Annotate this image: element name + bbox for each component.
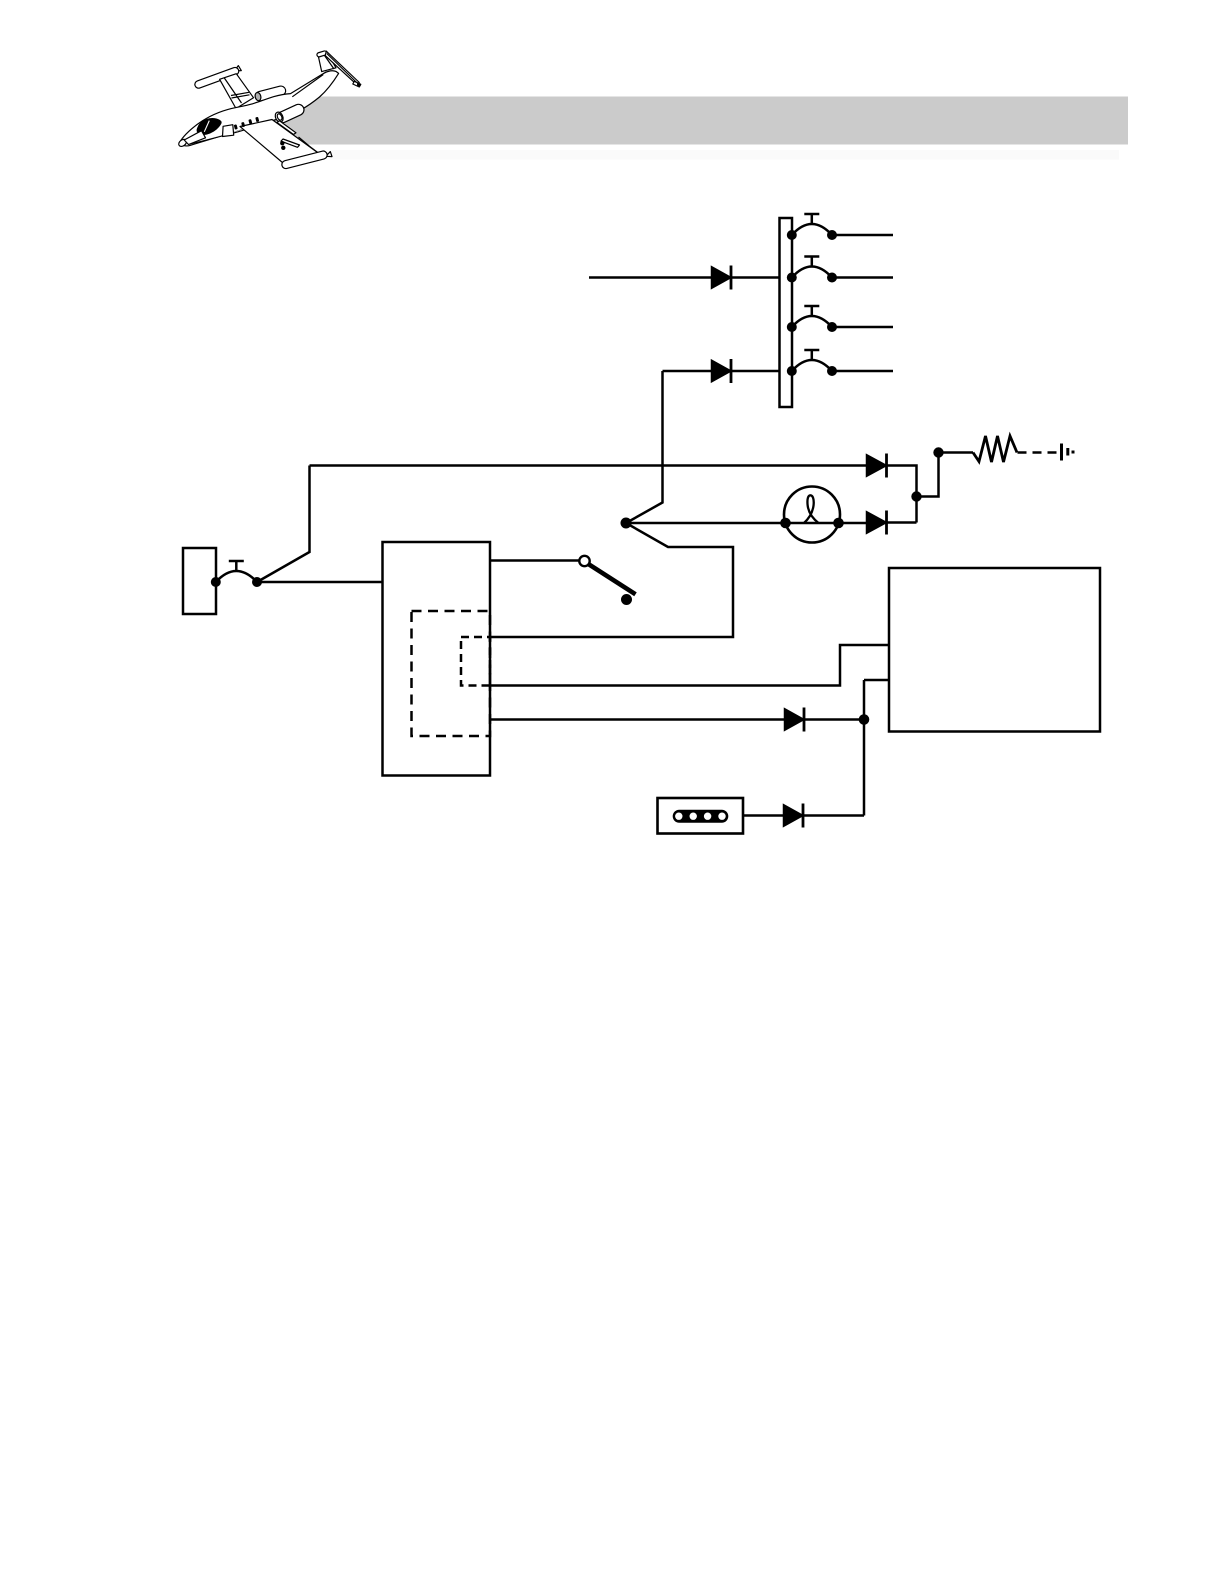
wire node D to control box bbox=[864, 679, 889, 682]
near engine pod bbox=[275, 103, 306, 125]
wire CR1 to bus bbox=[731, 276, 780, 279]
circuit breaker CB1 on bus bbox=[787, 214, 837, 240]
diode CR6 bbox=[784, 804, 803, 828]
wire node C through lamp bbox=[626, 522, 867, 525]
horizontal stabilizer bbox=[325, 51, 359, 85]
wire feed to diode CR1 bbox=[589, 276, 712, 279]
lamp terminal dots bbox=[780, 518, 791, 529]
wire CR3 to node bbox=[887, 466, 917, 523]
switch S1 bbox=[579, 556, 635, 605]
aircraft logo bbox=[177, 50, 360, 169]
relay box K1 bbox=[383, 542, 491, 776]
wire node A step bbox=[917, 453, 939, 497]
title banner bbox=[272, 97, 1128, 145]
landing gear bbox=[280, 141, 284, 145]
wire node B to resistor bbox=[939, 451, 974, 454]
wire CB2 output bbox=[832, 276, 893, 279]
wire relay contact to control box (step) bbox=[490, 645, 889, 686]
circuit breaker CB5 (battery) bbox=[211, 561, 262, 587]
ground bbox=[1062, 444, 1074, 461]
resistor R1 bbox=[973, 436, 1017, 462]
wire node D vertical bbox=[863, 680, 866, 816]
fin bbox=[318, 51, 336, 71]
wire CR6 to node D bbox=[803, 814, 864, 817]
fin dorsal line bbox=[292, 75, 323, 97]
fuselage bbox=[181, 71, 339, 146]
diode CR2 bbox=[712, 359, 731, 383]
wire node C to relay box lower path bbox=[490, 523, 733, 637]
near wing bbox=[240, 120, 321, 164]
wire CB3 output bbox=[832, 326, 893, 329]
wire node C riser to CR2 bbox=[626, 371, 663, 523]
diode CR4 bbox=[867, 511, 887, 535]
battery bbox=[183, 548, 216, 614]
node C (lamp feed junction) bbox=[621, 518, 632, 529]
wire CR4 to node A bbox=[887, 521, 917, 524]
relay coil dashed box bbox=[412, 611, 491, 736]
relay contact dashed box bbox=[461, 637, 490, 686]
wire relay box to switch bbox=[490, 559, 579, 562]
wire battery CB to relay box bbox=[257, 581, 383, 584]
nose panel bbox=[184, 131, 205, 145]
wire bus tie top bbox=[310, 464, 868, 467]
wire CB1 output bbox=[832, 234, 893, 237]
banner lower faint stripe bbox=[330, 150, 1119, 160]
annunciator connector bbox=[658, 798, 744, 834]
cabin door bbox=[223, 125, 234, 137]
far wing bbox=[220, 74, 254, 109]
node B dot bbox=[933, 447, 943, 457]
dashed wire to ground bbox=[1018, 451, 1060, 454]
lamp filament bbox=[804, 495, 819, 523]
circuit breaker CB4 on bus bbox=[787, 350, 837, 376]
wire relay to diode CR5 bbox=[490, 718, 785, 721]
near tip tank bbox=[326, 152, 332, 157]
wire connector to diode CR6 bbox=[743, 814, 784, 817]
fin cap bbox=[316, 50, 327, 57]
wire feed to diode CR2 bbox=[663, 370, 713, 373]
circuit breaker CB3 on bus bbox=[787, 306, 837, 332]
cabin windows bbox=[234, 117, 260, 130]
nose cap bbox=[177, 138, 187, 148]
diode CR3 bbox=[867, 454, 887, 478]
circuit breaker CB2 on bus bbox=[787, 257, 837, 283]
node D dot bbox=[859, 714, 870, 725]
far tip tank bbox=[235, 66, 242, 71]
wire CR2 to bus bbox=[731, 370, 780, 373]
lamp DS1 bbox=[784, 487, 840, 543]
bus bar bbox=[780, 218, 793, 407]
diode CR5 bbox=[785, 708, 804, 732]
wire battery CB riser bbox=[257, 466, 310, 583]
diode CR1 bbox=[712, 266, 731, 290]
control box bbox=[889, 568, 1100, 732]
node A dot bbox=[911, 491, 921, 501]
wire CB4 output bbox=[832, 370, 893, 373]
belly crease bbox=[188, 125, 258, 144]
cockpit windshield bbox=[197, 119, 221, 135]
far engine pod bbox=[254, 85, 286, 102]
wire CR5 to node D bbox=[804, 718, 864, 721]
